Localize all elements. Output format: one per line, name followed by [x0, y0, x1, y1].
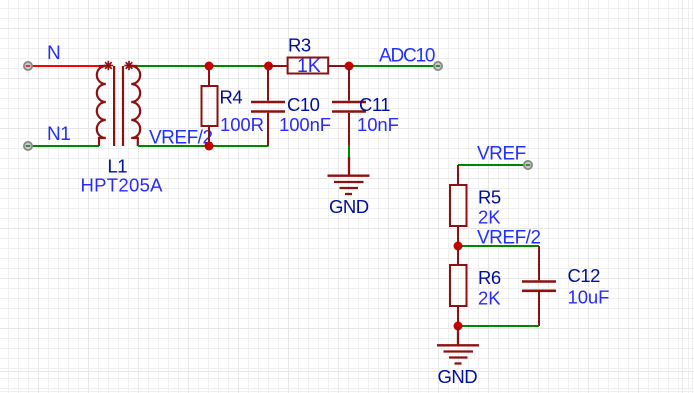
svg-text:GND: GND [329, 196, 369, 217]
svg-text:C11: C11 [359, 94, 390, 115]
svg-text:R3: R3 [288, 35, 311, 56]
svg-text:2K: 2K [478, 207, 501, 228]
pin ADC10 port [434, 62, 442, 70]
wire R6 bottom to C12 [458, 325, 539, 327]
junction top of C10 [264, 62, 273, 71]
wire N (red) [28, 65, 99, 67]
svg-text:10uF: 10uF [568, 287, 610, 308]
wire VREF net [458, 164, 528, 166]
svg-text:L1: L1 [108, 156, 128, 177]
wire C11 to GND [348, 145, 350, 157]
junction bottom of R4 [205, 142, 214, 151]
junction R3 right [345, 62, 354, 71]
capacitor C11 [332, 66, 366, 145]
svg-text:C12: C12 [568, 265, 601, 286]
wire bottom VREF/2 net [138, 145, 269, 147]
junction top of R4 [205, 62, 214, 71]
svg-text:R6: R6 [478, 267, 501, 288]
transformer L1 left winding [97, 66, 106, 146]
svg-text:1K: 1K [297, 55, 321, 77]
ground GND (under C11) [328, 157, 370, 194]
svg-text:2K: 2K [478, 288, 501, 309]
resistor R6 [450, 246, 467, 326]
svg-text:R5: R5 [478, 187, 501, 208]
svg-text:N: N [47, 43, 60, 64]
capacitor C12 [522, 246, 556, 326]
ground GND (under R6) [437, 326, 479, 364]
wire ADC10 net [349, 65, 438, 67]
svg-text:HPT205A: HPT205A [81, 175, 164, 196]
junction VREF/2 [454, 242, 463, 251]
wire top net (transformer to R3) [138, 65, 269, 67]
svg-text:VREF: VREF [477, 144, 526, 165]
svg-text:100R: 100R [220, 114, 264, 135]
resistor R4 [202, 66, 218, 146]
svg-text:GND: GND [438, 366, 478, 387]
transformer L1 right winding [131, 66, 140, 146]
transformer L1 core lines [114, 66, 123, 146]
svg-text:C10: C10 [287, 94, 320, 115]
transformer polarity star left [104, 61, 113, 70]
pin VREF port [524, 161, 532, 169]
svg-text:ADC10: ADC10 [379, 46, 435, 67]
wire VREF/2 to C12 [458, 245, 539, 247]
svg-text:N1: N1 [47, 124, 70, 145]
pin N1 port [24, 142, 32, 150]
pin N port [24, 62, 32, 70]
svg-text:10nF: 10nF [357, 114, 399, 135]
wire N1 [28, 145, 99, 147]
resistor R5 [450, 165, 467, 246]
capacitor C10 [251, 66, 285, 146]
svg-text:VREF/2: VREF/2 [149, 128, 213, 149]
svg-text:100nF: 100nF [279, 114, 331, 135]
resistor R3 [269, 58, 350, 74]
transformer polarity star right [124, 61, 133, 70]
junction R6 bottom [454, 322, 463, 331]
svg-text:R4: R4 [220, 87, 243, 108]
